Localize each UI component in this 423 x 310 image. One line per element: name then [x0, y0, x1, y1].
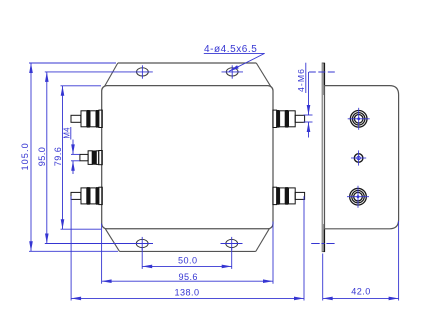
dimension 95.6 [102, 222, 273, 284]
flange top-left chamfer [102, 63, 118, 91]
terminal left middle M4 [80, 151, 102, 165]
side view hole centerline bottom [311, 243, 334, 245]
dimension 105.0 [29, 63, 118, 251]
dimension 50.0 [142, 248, 232, 269]
flange top-right chamfer [256, 63, 273, 90]
side terminal top [348, 108, 370, 130]
terminal left top [71, 110, 102, 128]
dimension 4-M6 [304, 72, 313, 138]
body front face [102, 86, 273, 229]
svg-text:M4: M4 [62, 127, 71, 139]
label M4 underline [70, 127, 72, 140]
side view flange edge black top [323, 63, 325, 95]
dimension 42.0 [323, 221, 399, 301]
side view hole centerline top [309, 71, 337, 73]
dimension M4 [71, 140, 80, 175]
mounting hole slot top-left [131, 65, 153, 78]
svg-text:138.0: 138.0 [174, 287, 199, 297]
side terminal middle [351, 150, 366, 165]
side view body [325, 86, 399, 229]
label 4-M6 underline [305, 63, 307, 93]
flange top edge [118, 62, 256, 64]
label underline [204, 52, 265, 54]
flange bottom edge [120, 250, 256, 252]
svg-text:105.0: 105.0 [20, 142, 30, 170]
dimension 95.0 [45, 72, 132, 244]
dimension 138.0 [71, 196, 304, 301]
flange bottom-right chamfer [256, 223, 273, 252]
side view flange edge black bottom [323, 224, 325, 252]
leader arrow to hole [229, 53, 265, 71]
mounting hole slot bottom-right [221, 237, 243, 250]
terminal left bottom [71, 187, 102, 205]
flange bottom-left chamfer [102, 224, 119, 252]
terminal right top [273, 110, 305, 128]
side view flange plate [322, 63, 324, 252]
svg-text:50.0: 50.0 [178, 256, 198, 266]
svg-text:4-M6: 4-M6 [296, 68, 306, 92]
mounting hole slot bottom-left [131, 237, 153, 250]
dimension 79.6 [61, 86, 102, 229]
svg-text:95.0: 95.0 [37, 147, 47, 167]
svg-text:79.6: 79.6 [53, 147, 63, 167]
mounting hole slot top-right [222, 65, 244, 78]
svg-text:42.0: 42.0 [351, 287, 371, 297]
terminal right bottom [273, 187, 305, 205]
svg-text:95.6: 95.6 [178, 272, 198, 282]
side terminal bottom [347, 186, 369, 208]
